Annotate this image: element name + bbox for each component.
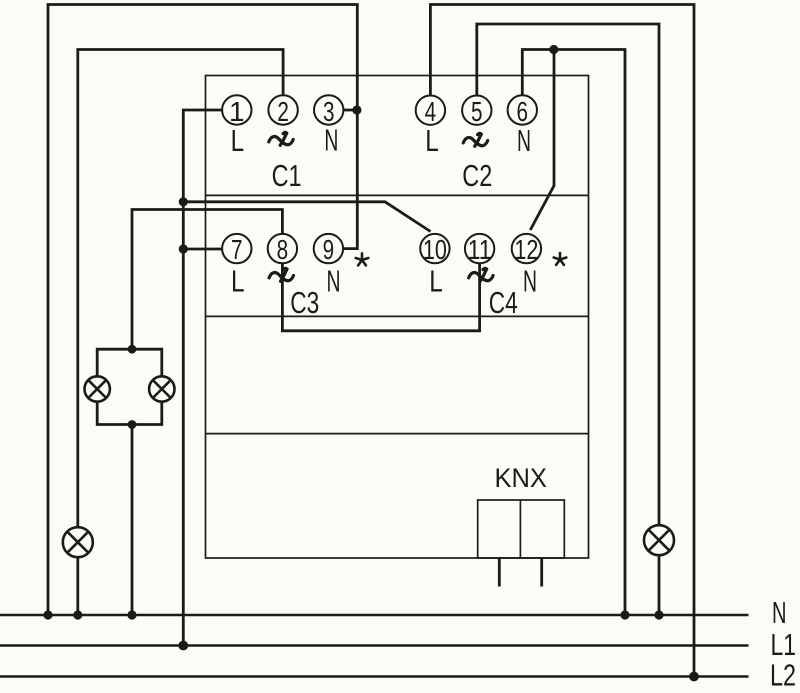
terminal 12 [512, 234, 541, 263]
wire: terminal 1 left then down to L1 bus [183, 110, 222, 646]
svg-text:C1: C1 [272, 158, 302, 193]
node: N feed junction [43, 610, 52, 619]
svg-text:L2: L2 [770, 659, 796, 693]
svg-text:9: 9 [323, 234, 335, 265]
node: junction right of terminal 3 [352, 105, 361, 114]
wire: terminal 8 up, left, down to parallel lamps [132, 210, 282, 350]
terminal 6 [508, 95, 537, 124]
svg-text:N: N [517, 124, 531, 158]
asterisk note terminal 9 [356, 253, 369, 265]
terminal 11 [465, 234, 494, 263]
node: junction bottom of lamp group [128, 420, 137, 429]
wire: N bus up left side to top, over to junction above terminal 3 [48, 5, 357, 617]
wire: stub to terminal 7 [183, 248, 222, 251]
terminal 9 [314, 234, 343, 263]
wire: lamp E2 down to N bus [658, 555, 661, 616]
terminal 1 [222, 95, 251, 124]
svg-text:C4: C4 [489, 285, 518, 320]
wire: terminal 6 up, right, down to N bus [522, 50, 625, 617]
wire: stub junction to terminal 3 [343, 109, 357, 112]
terminal 8 [268, 234, 297, 263]
svg-text:N: N [324, 124, 338, 158]
node: junction on L1 bus [178, 641, 188, 651]
dimmer symbol terminal 11 [469, 268, 493, 281]
svg-text:L: L [231, 124, 245, 158]
node: junction L branch upper [179, 197, 188, 206]
svg-text:12: 12 [514, 234, 538, 265]
node: junction on N bus [127, 610, 136, 619]
wire: parallel lamps down to N bus [131, 425, 134, 617]
channel divider 1 [206, 194, 589, 196]
dimmer symbol terminal 8 [269, 268, 293, 281]
channel divider 2 [206, 315, 589, 317]
dimmer symbol terminal 2 [269, 132, 293, 145]
svg-text:L1: L1 [771, 628, 797, 662]
terminal 2 [268, 95, 297, 124]
node: junction terminal 7 branch [179, 244, 188, 253]
node: junction on L2 [689, 672, 699, 682]
svg-text:8: 8 [277, 234, 289, 265]
lamp E1 [63, 527, 93, 557]
wire: L2 bus up right side to top, over to terminal 4 [430, 5, 694, 678]
asterisk note terminal 12 [554, 253, 567, 265]
node: junction lamp E1 on N [73, 610, 82, 619]
svg-text:6: 6 [517, 96, 529, 127]
svg-text:N: N [523, 264, 537, 298]
KNX terminal block [478, 500, 565, 558]
svg-text:L: L [425, 124, 439, 158]
svg-text:N: N [772, 596, 787, 630]
terminal 5 [462, 96, 491, 125]
svg-text:4: 4 [425, 96, 437, 127]
wire: terminal 5 up and right to lamp E2 [477, 24, 659, 525]
svg-text:KNX: KNX [494, 463, 547, 493]
svg-text:1: 1 [229, 96, 245, 127]
wire: link terminal 8 to terminal 11 [282, 263, 479, 331]
svg-text:5: 5 [471, 96, 483, 127]
node: junction lamp E2 on N [654, 610, 663, 619]
svg-text:11: 11 [468, 234, 492, 265]
terminal 4 [416, 96, 445, 125]
svg-text:3: 3 [323, 96, 335, 127]
svg-text:N: N [327, 264, 341, 298]
wire: lamp E1 down to N bus [76, 557, 79, 616]
wire: junction down to terminal 9 [343, 110, 357, 249]
wire: L branch right and diagonal to terminal 10 [183, 202, 430, 232]
terminal 10 [420, 234, 449, 263]
KNX bus pin + [498, 558, 501, 587]
dimmer symbol terminal 5 [463, 133, 487, 146]
terminal 3 [314, 95, 343, 124]
KNX bus pin - [540, 558, 543, 587]
channel divider 3 [206, 433, 589, 435]
bus N [0, 614, 749, 616]
svg-text:L: L [429, 264, 443, 298]
lamp E3 [85, 376, 110, 401]
node: junction top of lamp group [128, 345, 137, 354]
svg-text:7: 7 [231, 234, 243, 265]
lamp E2 [644, 525, 674, 555]
bus L1 [0, 644, 749, 646]
svg-text:C3: C3 [290, 285, 319, 320]
wire: terminal 2 up, left, down to lamp E1 [78, 50, 283, 528]
node: junction on N bus [620, 610, 629, 619]
node: junction above terminal 12 [549, 45, 558, 54]
bus L2 [0, 675, 749, 677]
lamp group E3/E4 rails [97, 349, 162, 376]
terminal 7 [222, 234, 251, 263]
lamp E4 [149, 376, 174, 401]
svg-text:10: 10 [423, 234, 447, 265]
wire: junction down and diagonal to terminal 12 [530, 50, 554, 231]
svg-text:2: 2 [277, 96, 289, 127]
svg-text:C2: C2 [462, 158, 492, 193]
svg-text:L: L [231, 264, 245, 298]
device outline [206, 76, 589, 559]
